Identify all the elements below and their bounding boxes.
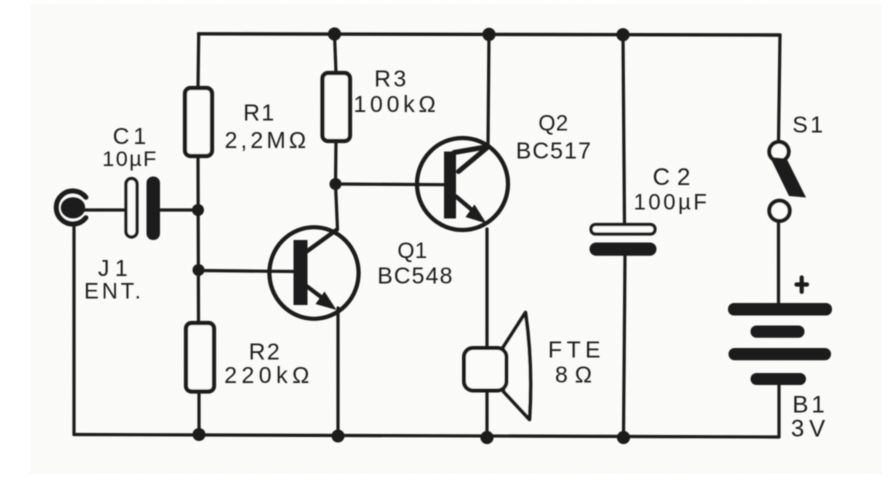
wire R1 bottom through nodes to R2 top: [196, 156, 200, 323]
svg-text:8Ω: 8Ω: [555, 362, 599, 388]
svg-text:ENT.: ENT.: [84, 279, 144, 304]
wire top-left corner down to R1: [196, 34, 200, 88]
svg-text:100kΩ: 100kΩ: [353, 91, 439, 117]
transistor Q2 emitter stroke with arrow: [456, 197, 475, 213]
transistor Q1 circle: [269, 227, 358, 319]
wire R2 bottom to bottom rail: [197, 392, 200, 435]
transistor Q1 emitter stroke with arrow: [307, 286, 328, 302]
node A (C1 junction): [192, 204, 204, 216]
capacitor C2 bottom plate: [590, 243, 657, 256]
svg-text:3V: 3V: [791, 416, 830, 443]
resistor R2: [186, 323, 214, 392]
transistor Q2 circle: [417, 138, 508, 230]
svg-text:C1: C1: [113, 123, 150, 149]
svg-text:Q2: Q2: [538, 111, 568, 136]
wire node C to Q2 base: [336, 182, 447, 186]
svg-text:10µF: 10µF: [102, 147, 157, 171]
switch S1 upper contact: [769, 142, 788, 161]
node top rail at R3: [328, 27, 341, 40]
speaker FTE horn: [503, 313, 531, 420]
svg-text:100µF: 100µF: [634, 190, 710, 215]
transistor Q2 collector strokes: [454, 147, 489, 172]
wire node B to Q1 base: [199, 271, 296, 272]
svg-text:220kΩ: 220kΩ: [224, 362, 314, 388]
svg-text:Q1: Q1: [397, 238, 427, 263]
resistor R3: [323, 73, 351, 141]
capacitor C1 left plate: [126, 179, 137, 238]
svg-text:J1: J1: [98, 255, 133, 281]
node C (R3 / Q2 base junction): [330, 178, 342, 190]
label battery plus: [797, 278, 808, 292]
wire C1 to node A: [160, 208, 198, 211]
node bottom rail at R2: [193, 428, 206, 441]
wire top rail to R3: [335, 34, 337, 73]
resistor R1: [185, 88, 212, 156]
svg-text:2,2MΩ: 2,2MΩ: [225, 127, 310, 153]
wire Q1 emitter to bottom rail: [336, 308, 339, 437]
battery B1 plate 3 long: [729, 348, 832, 360]
wire left vertical J1 to bottom rail: [72, 226, 75, 435]
jack J1 center pin: [61, 197, 85, 218]
svg-text:FTE: FTE: [548, 337, 605, 363]
svg-text:R1: R1: [243, 100, 275, 126]
speaker FTE box: [464, 348, 507, 391]
wire Q2 collector to top rail: [488, 34, 489, 146]
svg-text:C2: C2: [653, 164, 698, 191]
svg-text:R2: R2: [249, 339, 281, 365]
svg-text:BC517: BC517: [516, 138, 592, 164]
battery B1 plate 2 short: [751, 326, 805, 338]
capacitor C2 top plate: [591, 225, 655, 235]
node bottom rail at speaker: [480, 431, 493, 444]
wire top rail: [199, 34, 781, 35]
node B (Q1 base junction): [193, 264, 205, 276]
wire top rail to C2: [623, 35, 625, 225]
switch S1 lower contact: [769, 201, 789, 221]
node bottom rail at C2: [617, 431, 630, 444]
svg-text:R3: R3: [374, 66, 408, 92]
wire node C down to Q1 collector: [336, 184, 338, 229]
wire Q2 emitter down to speaker: [485, 229, 488, 438]
jack J1 outer ring (open right): [56, 191, 86, 224]
node top rail at C2: [616, 28, 629, 41]
transistor Q1 base bar: [294, 240, 308, 305]
transistor Q1 collector stroke: [306, 230, 337, 253]
node top rail at Q2 collector: [482, 28, 495, 41]
switch S1 lever: [770, 157, 806, 198]
svg-text:B1: B1: [792, 392, 827, 419]
wire battery to bottom rail corner: [777, 385, 780, 437]
transistor Q2 base bar: [444, 152, 456, 219]
capacitor C1 right plate: [147, 177, 161, 241]
wire bottom rail: [74, 435, 779, 438]
svg-text:BC548: BC548: [377, 263, 453, 289]
battery B1 plate 1 long: [728, 303, 832, 316]
battery B1 plate 4 short: [751, 373, 807, 385]
wire jack to C1: [84, 208, 127, 211]
wire S1 to battery: [777, 221, 780, 304]
node bottom rail at Q1 emitter: [332, 430, 345, 443]
wire top rail right corner down to S1: [779, 35, 781, 142]
wire C2 to bottom rail: [624, 256, 626, 438]
svg-text:S1: S1: [792, 112, 825, 138]
wire R3 bottom to node C: [334, 141, 338, 184]
